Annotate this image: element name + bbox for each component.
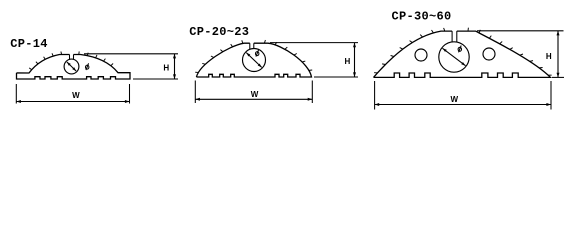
CP-30~60 center cable hole circle <box>439 42 469 72</box>
CP-20~23 H top extension line <box>270 42 358 44</box>
CP-14 H top extension line <box>84 53 178 55</box>
CP-30~60 cable slit <box>451 31 453 42</box>
CP-20~23 cable hole circle <box>243 49 266 72</box>
CP-30~60 right small hole circle <box>483 48 495 60</box>
svg-text:W: W <box>72 91 80 100</box>
CP-20~23 W dimension line <box>195 98 312 100</box>
CP-14 hole diameter arrow <box>67 62 76 71</box>
CP-20~23 hole diameter arrow <box>246 53 261 68</box>
CP-14 H dimension line <box>174 54 176 79</box>
CP-20~23 phi symbol <box>256 50 259 57</box>
svg-text:CP-14: CP-14 <box>10 37 48 51</box>
CP-20~23 cable slit <box>249 43 251 49</box>
CP-30~60 W right extension line <box>550 81 552 110</box>
CP-30~60 W left extension line <box>374 81 376 110</box>
CP-14 W left extension line <box>15 84 17 104</box>
CP-30~60 hatch marks on dome <box>374 28 551 75</box>
CP-14 hatch marks on dome <box>29 51 113 69</box>
CP-30~60 hole diameter arrow <box>443 48 466 65</box>
svg-text:H: H <box>345 57 351 66</box>
CP-30~60 left small hole circle <box>415 49 427 61</box>
CP-30~60 body outline (dome, ribbed bottom, top slit gap) <box>374 31 551 77</box>
CP-14 body outline (base plate + ribbed bottom + dome with top slit gap) <box>17 55 131 80</box>
CP-20~23 body outline (dome, ribbed bottom, top slit gap) <box>196 43 311 77</box>
svg-text:CP-20~23: CP-20~23 <box>189 25 249 39</box>
CP-14 cable slit <box>69 55 71 60</box>
svg-text:W: W <box>251 90 259 99</box>
CP-14 W right extension line <box>129 84 131 104</box>
CP-20~23 H bottom extension line <box>314 76 358 78</box>
svg-text:CP-30~60: CP-30~60 <box>392 10 452 24</box>
CP-20~23 W left extension line <box>194 81 196 104</box>
CP-14 W dimension line <box>16 101 129 103</box>
svg-text:H: H <box>163 64 169 73</box>
CP-20~23 hatch marks on dome <box>195 40 312 73</box>
svg-text:W: W <box>451 95 459 104</box>
CP-30~60 H dimension line <box>557 31 559 78</box>
CP-14 cable hole circle <box>64 59 79 74</box>
CP-30~60 H top extension line <box>477 30 564 32</box>
CP-14 phi symbol <box>86 63 89 70</box>
CP-20~23 H dimension line <box>354 43 356 77</box>
CP-30~60 W dimension line <box>375 104 551 106</box>
CP-30~60 phi symbol <box>458 46 461 53</box>
svg-text:H: H <box>546 52 552 61</box>
CP-14 H bottom extension line <box>133 78 178 80</box>
CP-30~60 H bottom extension line <box>552 76 564 78</box>
CP-20~23 W right extension line <box>311 81 313 104</box>
